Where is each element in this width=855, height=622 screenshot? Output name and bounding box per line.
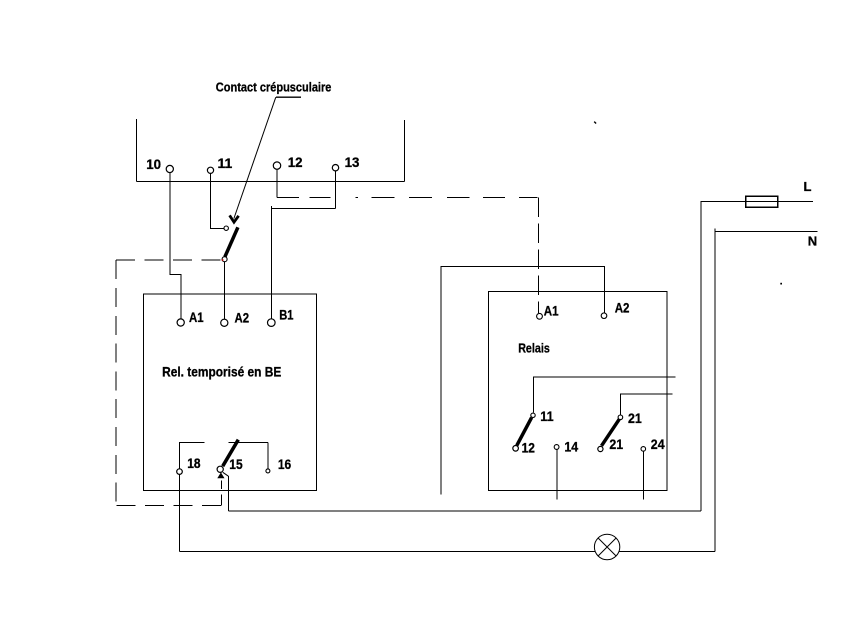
- svg-text:Contact crépusculaire: Contact crépusculaire: [216, 79, 332, 94]
- lamp supply wire: [179, 550, 715, 552]
- terminal A2 (rel. temporisé): [221, 311, 249, 327]
- stray mark 2: [780, 283, 782, 285]
- pivot red mark: [222, 259, 224, 261]
- svg-text:10: 10: [146, 156, 161, 172]
- terminal 10: [146, 156, 173, 173]
- svg-text:15: 15: [229, 457, 243, 472]
- svg-text:11: 11: [540, 409, 554, 424]
- svg-text:B1: B1: [279, 308, 294, 323]
- contact 11 (relais): [531, 409, 554, 424]
- stray mark 1: [594, 122, 596, 124]
- wire terminal 12 down: [276, 169, 278, 197]
- box Rel. temporisé en BE: [143, 294, 316, 491]
- contact 15: [217, 457, 243, 473]
- wire contact 24 down: [642, 452, 644, 500]
- wire pivot to A2: [223, 261, 225, 319]
- dashed mechanical-linkage rectangle: [116, 260, 222, 506]
- wire contact 15 to L rail: [223, 472, 229, 476]
- wire terminal 13 down: [335, 171, 337, 209]
- throw line over 16: [228, 443, 268, 469]
- contact 14 (relais): [554, 439, 578, 454]
- svg-text:L: L: [804, 179, 812, 194]
- enclosure bracket (contact crépusculaire module): [137, 119, 405, 182]
- contact 12 (relais): [513, 440, 535, 455]
- svg-text:A2: A2: [615, 301, 630, 316]
- switch blade 15: [223, 440, 239, 467]
- leader underline: [276, 96, 301, 98]
- wire contact 14 down: [556, 450, 558, 500]
- N supply line: [715, 229, 818, 232]
- switch blade (contact crépusculaire): [225, 227, 238, 256]
- svg-text:24: 24: [651, 437, 665, 452]
- contact 18: [177, 456, 201, 474]
- switch pivot (contact crépusculaire): [222, 257, 227, 262]
- lamp E1: [594, 534, 619, 559]
- L supply line: [701, 201, 814, 203]
- contact 21 bottom (relais): [598, 437, 624, 452]
- box Relais: [488, 292, 666, 491]
- wire contact 18 to lamp line: [178, 475, 180, 552]
- terminal A1 (relais): [537, 304, 559, 320]
- svg-text:Rel. temporisé en BE: Rel. temporisé en BE: [162, 364, 281, 380]
- svg-text:A1: A1: [544, 304, 559, 319]
- terminal B1 (rel. temporisé): [268, 308, 294, 327]
- dash-dot link line to relais A1: [277, 198, 538, 314]
- svg-text:12: 12: [522, 440, 535, 455]
- terminal A1 (rel. temporisé): [177, 310, 204, 326]
- terminal 12: [273, 154, 302, 170]
- svg-text:14: 14: [564, 439, 578, 454]
- svg-text:A2: A2: [235, 311, 250, 326]
- blade 21-21 (relais): [602, 419, 620, 446]
- svg-text:11: 11: [218, 155, 233, 171]
- wire N down to lamp line: [714, 231, 716, 551]
- contact 24 (relais): [641, 437, 665, 452]
- leader arrowhead: [230, 215, 239, 222]
- contact 16: [266, 457, 292, 473]
- wire relais coil A1-A2 feed: [441, 267, 604, 495]
- fuse F1: [746, 196, 778, 207]
- svg-text:18: 18: [187, 456, 201, 471]
- leader line: [234, 97, 276, 218]
- wire contact 11 to right: [533, 377, 675, 413]
- terminal A2 (relais): [601, 301, 629, 319]
- contact 21 top (relais): [618, 411, 642, 426]
- switch throw contact (crépusculaire): [224, 226, 228, 230]
- svg-text:13: 13: [345, 154, 360, 170]
- wire terminal 10 to A1: [170, 172, 181, 319]
- wire contact 21 to right: [620, 394, 672, 415]
- svg-text:N: N: [808, 234, 817, 249]
- svg-text:12: 12: [288, 154, 303, 170]
- wire B1 to terminal 13: [271, 206, 335, 320]
- linkage arrowhead at contact 15: [217, 472, 224, 478]
- wire L down to contact 15 line: [700, 202, 702, 512]
- terminal 11: [207, 155, 232, 174]
- svg-text:21: 21: [628, 411, 642, 426]
- svg-text:Relais: Relais: [518, 341, 550, 356]
- svg-text:21: 21: [609, 437, 623, 452]
- svg-text:16: 16: [278, 457, 292, 472]
- throw line over 18: [179, 443, 204, 469]
- terminal 13: [332, 154, 359, 171]
- svg-text:A1: A1: [189, 310, 204, 325]
- blade 12-11 (relais): [517, 418, 532, 446]
- wire terminal 11 to switch throw: [211, 173, 224, 228]
